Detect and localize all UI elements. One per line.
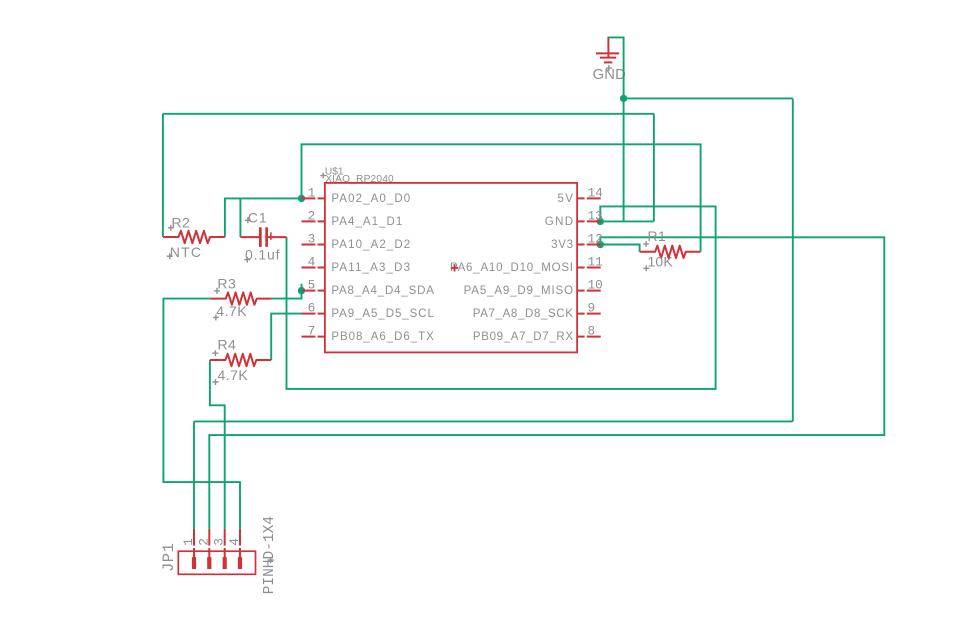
svg-text:9: 9 (588, 301, 596, 316)
ground GND symbol (596, 37, 619, 72)
svg-text:PA8_A4_D4_SDA: PA8_A4_D4_SDA (331, 285, 434, 297)
wire top rail left (163, 113, 654, 115)
svg-text:NTC: NTC (170, 244, 202, 260)
wire pin 1 left to R2 right (225, 198, 302, 237)
pin 13 GND (545, 209, 603, 228)
capacitor C1 (240, 227, 286, 247)
svg-text:PA4_A1_D1: PA4_A1_D1 (331, 216, 403, 228)
wire pin 12 long loop to JP1 pin 2 (209, 237, 884, 529)
connector JP1 PINHD-1X4 body (178, 551, 255, 574)
pin 3 PA10_A2_D2 (302, 232, 412, 251)
wire pin 5 stub down to R3 right (272, 284, 302, 299)
svg-text:PA02_A0_D0: PA02_A0_D0 (331, 193, 411, 205)
svg-text:R3: R3 (217, 276, 236, 292)
svg-text:14: 14 (588, 186, 604, 201)
svg-text:5V: 5V (558, 193, 575, 205)
svg-text:GND: GND (593, 67, 626, 83)
svg-text:GND: GND (545, 216, 575, 228)
svg-text:R2: R2 (172, 214, 191, 230)
svg-text:PA6_A10_D10_MOSI: PA6_A10_D10_MOSI (450, 262, 574, 274)
wire across to JP1 pin 1 (194, 420, 793, 422)
pin 6 PA9_A5_D5_SCL (302, 301, 435, 320)
pin 1 PA02_A0_D0 (302, 186, 412, 205)
resistor R1 (640, 246, 701, 258)
svg-text:4: 4 (308, 255, 316, 270)
wire right riser down (792, 98, 794, 421)
svg-text:1: 1 (181, 538, 196, 546)
resistor R3 (210, 292, 271, 304)
wire GND symbol jog to vertical (608, 37, 623, 221)
svg-text:2: 2 (196, 538, 211, 546)
JP1 pin 3 (212, 529, 227, 569)
svg-text:5: 5 (308, 278, 316, 293)
svg-text:3V3: 3V3 (551, 239, 574, 251)
wire pin 6 to R4 right (271, 314, 301, 360)
pin 9 PA7_A8_D8_SCK (473, 301, 601, 320)
JP1 pin 2 (196, 529, 211, 569)
pin 10 PA5_A9_D9_MISO (464, 278, 603, 297)
svg-text:C1: C1 (248, 209, 268, 225)
pin 12 3V3 (551, 232, 603, 251)
wire pin 13 to C1 right lower loop (287, 206, 716, 389)
svg-text:1: 1 (308, 186, 316, 201)
pin 11 PA6_A10_D10_MOSI (450, 255, 603, 274)
junction pin 5 (298, 287, 305, 294)
svg-text:6: 6 (308, 301, 316, 316)
wire R4 left jog to JP1 pin 3 (210, 360, 225, 529)
pin 14 5V (558, 186, 604, 205)
svg-text:XIAO_RP2040: XIAO_RP2040 (325, 174, 394, 185)
svg-text:PB08_A6_D6_TX: PB08_A6_D6_TX (331, 331, 434, 343)
svg-text:11: 11 (588, 255, 604, 270)
svg-text:4.7K: 4.7K (216, 303, 247, 319)
wire pin 1 up and over to R1 right (302, 144, 701, 252)
wire GND junction to right riser (624, 97, 793, 99)
wire R3 left loop to JP1 pin 4 (163, 299, 240, 529)
svg-text:PA10_A2_D2: PA10_A2_D2 (331, 239, 411, 251)
wire riser up to top rail (653, 114, 655, 222)
wire left drop to R2 (162, 114, 164, 237)
svg-text:4.7K: 4.7K (218, 367, 249, 383)
svg-text:0.1uf: 0.1uf (245, 246, 280, 262)
C1 name label (245, 209, 268, 225)
wire pin 13 to riser (600, 220, 654, 222)
pin 2 PA4_A1_D1 (302, 209, 404, 228)
pin 8 PB09_A7_D7_RX (473, 324, 601, 343)
svg-text:2: 2 (308, 209, 316, 224)
svg-text:12: 12 (588, 232, 603, 247)
svg-text:13: 13 (588, 209, 603, 224)
svg-text:3: 3 (308, 232, 316, 247)
svg-text:4: 4 (227, 538, 242, 546)
svg-text:PB09_A7_D7_RX: PB09_A7_D7_RX (473, 331, 574, 343)
svg-text:PA9_A5_D5_SCL: PA9_A5_D5_SCL (331, 308, 434, 320)
junction GND top (620, 95, 627, 102)
svg-text:R4: R4 (218, 336, 237, 352)
C1 value label 0.1uf (244, 246, 280, 262)
junction pin 13 (597, 218, 604, 225)
svg-text:7: 7 (308, 324, 316, 339)
svg-text:PA5_A9_D9_MISO: PA5_A9_D9_MISO (464, 285, 574, 297)
pin 7 PB08_A6_D6_TX (302, 324, 435, 343)
svg-text:3: 3 (212, 538, 227, 546)
junction pin 12 (597, 241, 604, 248)
svg-text:PA11_A3_D3: PA11_A3_D3 (331, 262, 411, 274)
svg-text:PINHD-1X4: PINHD-1X4 (262, 516, 278, 594)
JP1 pin 1 (181, 529, 196, 569)
JP1 pin 4 (227, 529, 242, 569)
U$1 origin cross (451, 264, 458, 271)
junction pin 1 (298, 195, 305, 202)
svg-text:10: 10 (588, 278, 603, 293)
IC U$1 XIAO_RP2040 body (325, 183, 577, 353)
wire pin 12 to R1 left (600, 245, 639, 252)
resistor R4 (210, 354, 271, 366)
svg-text:PA7_A8_D8_SCK: PA7_A8_D8_SCK (473, 308, 574, 320)
svg-text:R1: R1 (648, 228, 667, 244)
svg-text:JP1: JP1 (160, 543, 178, 572)
resistor R2 (163, 231, 225, 243)
pin 5 PA8_A4_D4_SDA (302, 278, 435, 297)
svg-text:8: 8 (588, 324, 596, 339)
pin 4 PA11_A3_D3 (302, 255, 412, 274)
wire JP1 pin 1 drop (193, 421, 195, 529)
wire branch down to C1 left (239, 198, 241, 237)
svg-text:10K: 10K (648, 254, 674, 270)
